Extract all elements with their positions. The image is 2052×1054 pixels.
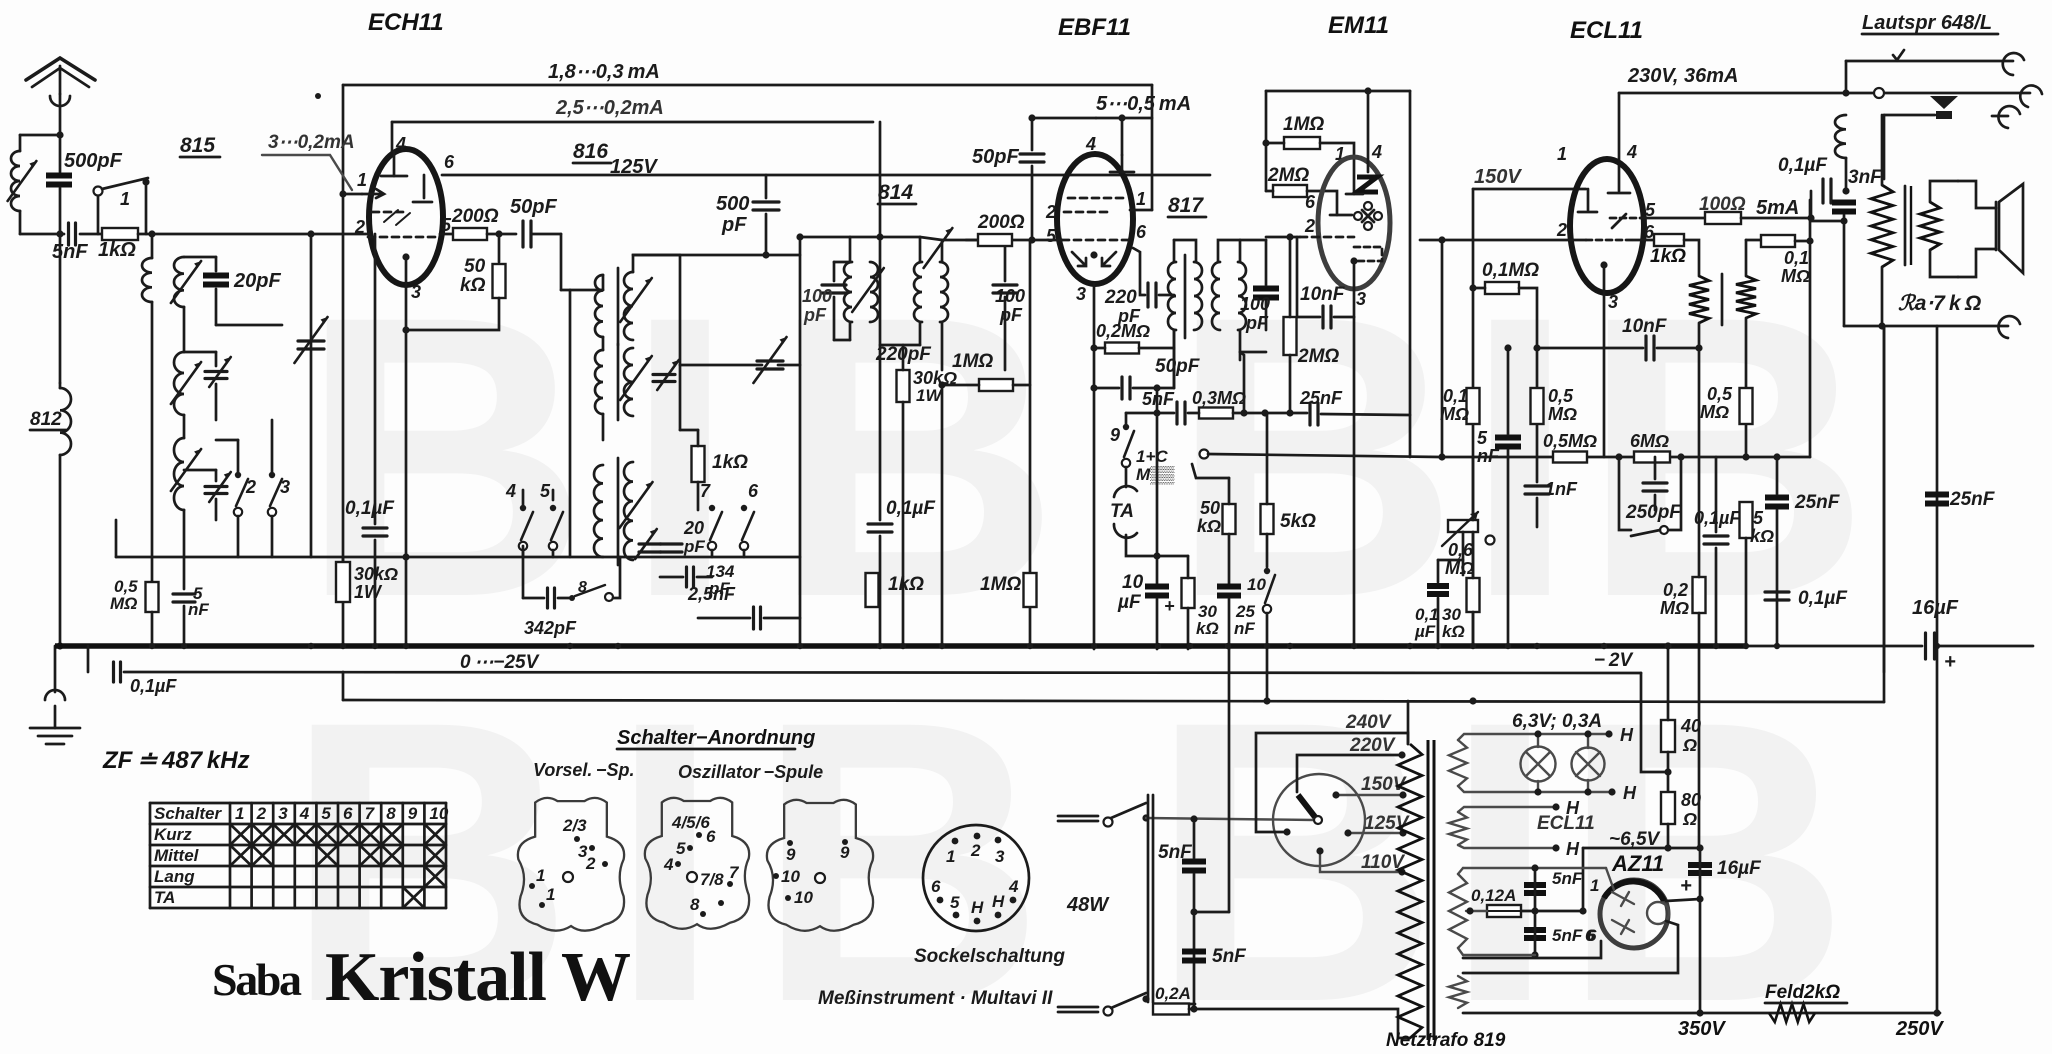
mains sw2 blade <box>1111 993 1146 1008</box>
antenna roof left inner <box>32 68 89 87</box>
detector line y414 d <box>1321 414 1410 415</box>
0,1ECL top <box>1715 457 1718 532</box>
svg-text:6: 6 <box>444 152 455 172</box>
svg-text:500: 500 <box>716 193 749 215</box>
EBF pin4 stem <box>1121 155 1124 172</box>
EBF grids dashed <box>1062 198 1128 240</box>
antenna lower lead <box>59 455 62 646</box>
bus junction <box>615 643 621 649</box>
0,2M top <box>1698 348 1701 577</box>
50pF agc wire b <box>1133 387 1174 390</box>
speaker plug pad <box>1936 111 1952 119</box>
814 plate line <box>800 236 850 239</box>
bus junction <box>149 643 155 649</box>
trimmer cap c <box>205 487 227 494</box>
trimmer osc b arrow <box>657 360 679 390</box>
x1810 down <box>1809 241 1812 457</box>
tap dot 110 <box>1398 868 1405 875</box>
Vorsel center hole <box>563 872 573 882</box>
342 vert left <box>522 546 525 598</box>
100pF R top <box>1004 240 1007 281</box>
selector pin 125 <box>1344 829 1351 836</box>
capacitor 0,1µF 814 <box>868 524 892 532</box>
node 0,1M join <box>1533 344 1540 351</box>
svg-text:kΩ: kΩ <box>460 275 486 296</box>
ground drop <box>54 646 57 692</box>
wire 20pF top <box>215 257 218 271</box>
capacitor 16µF az <box>1688 865 1712 873</box>
wire trim c top <box>215 470 218 481</box>
switch1 right dot <box>142 178 149 185</box>
resistor 0,1MΩ fb <box>1761 235 1795 247</box>
250p cap bot <box>1654 495 1657 510</box>
right edge column <box>1936 646 1939 1013</box>
capacitor 50pF osc <box>523 221 531 247</box>
svg-text:2,5⋯0,2mA: 2,5⋯0,2mA <box>555 97 664 119</box>
svg-text:Lautspr 648/L: Lautspr 648/L <box>1862 12 1992 34</box>
trimmer osc b <box>653 375 675 382</box>
AZ anode2 wire <box>1463 921 1678 973</box>
svg-text:Ω: Ω <box>1682 809 1697 829</box>
bus junction <box>1713 643 1719 649</box>
resistor 2MΩ v <box>1284 317 1297 355</box>
ot core 2 <box>1910 186 1912 265</box>
svg-text:0,1µF: 0,1µF <box>1778 155 1828 176</box>
svg-text:50: 50 <box>464 256 486 277</box>
30k r top <box>1472 532 1475 578</box>
capacitor 342pF <box>548 588 555 608</box>
100pF 817 bot <box>1265 301 1268 330</box>
wire 220V tap <box>1297 755 1402 792</box>
wire x184 b-c <box>183 415 186 438</box>
switch 8 <box>569 585 613 601</box>
svg-text:0,5: 0,5 <box>1548 386 1574 406</box>
fuse 0,2A <box>1153 1004 1189 1015</box>
rail 816 125V <box>442 174 1210 177</box>
svg-text:Lang: Lang <box>154 867 195 886</box>
30k mid bot <box>902 402 905 646</box>
svg-text:10: 10 <box>1247 575 1266 594</box>
speaker bottom line <box>1844 325 2008 328</box>
svg-text:5: 5 <box>676 839 686 858</box>
svg-text:EM11: EM11 <box>1328 12 1389 39</box>
node -6,5V <box>1696 844 1703 851</box>
resistor 80Ω <box>1661 792 1675 824</box>
stub 05M top <box>151 557 154 583</box>
EM cath down <box>1353 317 1356 646</box>
svg-text:10: 10 <box>781 867 800 886</box>
rail 0-25V <box>124 672 1641 673</box>
rail bottom right <box>1463 1012 1940 1015</box>
svg-text:ECL11: ECL11 <box>1537 813 1595 834</box>
svg-text:MΩ: MΩ <box>1440 404 1469 424</box>
ECH cathode line <box>405 257 408 330</box>
switch 7 <box>708 505 722 550</box>
capacitor 5nF ps1 <box>1182 862 1206 871</box>
mains sw1 dot <box>1142 814 1149 821</box>
x1157 column <box>1156 413 1159 585</box>
capacitor 100pF 814L <box>822 285 846 293</box>
pot link <box>1472 457 1475 520</box>
resistor 2MΩ EM <box>1273 185 1307 197</box>
814 link y340 <box>834 339 850 342</box>
svg-text:TA: TA <box>154 888 175 907</box>
svg-text:240V: 240V <box>1345 712 1392 733</box>
EM grid bar <box>1346 193 1363 196</box>
bus junction <box>877 643 883 649</box>
EM grid dashed <box>1300 236 1354 239</box>
svg-text:0,2A: 0,2A <box>1155 984 1191 1003</box>
capacitor 50pF agc <box>1122 377 1130 399</box>
resistor 200Ω EBF <box>978 234 1012 246</box>
AZ pin1 wire <box>1463 867 1606 869</box>
250p box <box>1619 457 1631 530</box>
svg-text:1kΩ: 1kΩ <box>712 452 748 473</box>
potentiometer 0,6MΩ <box>1442 512 1478 546</box>
svg-text:1kΩ: 1kΩ <box>98 239 136 261</box>
cap20 arrow <box>635 529 657 559</box>
tuning cap arrow main <box>294 317 327 363</box>
svg-text:Schalter: Schalter <box>154 804 222 823</box>
lamp2 top stub <box>1587 734 1589 748</box>
TA jack arcs <box>1114 486 1137 538</box>
svg-text:ECL11: ECL11 <box>1570 17 1643 44</box>
node 880 plate <box>876 233 883 240</box>
2M EM right <box>1307 191 1337 215</box>
TA return <box>1126 535 1188 556</box>
svg-text:20pF: 20pF <box>233 270 281 292</box>
ECL triode slash <box>1612 214 1626 228</box>
switch 2 <box>234 472 248 516</box>
0,1trafo lead <box>1438 559 1463 562</box>
bus junction <box>372 643 378 649</box>
0,1trafo bot <box>1437 598 1440 646</box>
coil osc a2 <box>624 272 633 340</box>
mains lead 2 <box>1058 1007 1098 1012</box>
134 wire <box>660 576 683 579</box>
arrow coil <box>171 261 201 303</box>
x680 seg2 <box>679 365 682 430</box>
coil osc c1 <box>594 465 603 557</box>
ECL grid line <box>1420 239 1586 242</box>
250p box b <box>1668 457 1681 530</box>
svg-text:220: 220 <box>1104 287 1137 308</box>
resistor 1MΩ EM <box>1284 137 1320 149</box>
sw7 bottom stub <box>711 550 714 557</box>
fuse 0,12A <box>1487 905 1521 917</box>
50pF low <box>1031 166 1034 240</box>
bus after 16uF <box>1938 645 2033 648</box>
mains sw1 blade <box>1111 803 1146 818</box>
svg-text:5kΩ: 5kΩ <box>1280 511 1316 532</box>
svg-text:50: 50 <box>1200 498 1220 518</box>
resistor 200Ω ECH <box>453 228 487 240</box>
0,1trafo top <box>1437 560 1440 582</box>
817 right top <box>1240 239 1266 242</box>
svg-text:1: 1 <box>1557 144 1567 164</box>
arrow osc c2 <box>619 482 652 528</box>
switch 4 <box>519 505 533 550</box>
svg-text:Vorsel. −Sp.: Vorsel. −Sp. <box>533 760 634 780</box>
resistor 0,2MΩ EBF <box>1105 343 1139 354</box>
selector center <box>1314 816 1322 824</box>
socket pin labels <box>931 841 1019 917</box>
bus junction <box>1774 643 1780 649</box>
svg-text:+: + <box>1944 651 1956 673</box>
wire 20pF link <box>184 256 216 259</box>
resistor 1kΩ osc <box>692 446 705 482</box>
1k ECL right <box>1684 240 1699 276</box>
svg-text:10: 10 <box>794 888 813 907</box>
ground bar3 <box>46 743 64 746</box>
svg-text:1: 1 <box>546 885 555 904</box>
speaker hook 3 <box>1992 106 2020 128</box>
filament drop <box>1582 848 1585 911</box>
EM grid left <box>1266 236 1300 239</box>
node mains2 <box>1190 1005 1197 1012</box>
bus junction <box>1187 643 1193 649</box>
100pF 817 top <box>1265 240 1268 285</box>
spk vert a <box>1845 61 1848 93</box>
x1030 vert <box>1029 240 1032 646</box>
node EM pin4 top <box>1364 87 1371 94</box>
250p sw circ <box>1660 526 1668 534</box>
-2V bend to 40-80 <box>1641 673 1668 772</box>
30k mid top <box>902 345 905 370</box>
speaker hook 2 <box>2020 86 2042 107</box>
resistor 5kΩ <box>1261 504 1274 534</box>
field coil bot <box>1845 158 1848 188</box>
10nF ECL wire <box>1537 347 1643 350</box>
node EBF pin4 <box>1118 114 1125 121</box>
bus junction <box>567 643 573 649</box>
node mains mid <box>1190 908 1197 915</box>
box left vertical x343 <box>342 85 345 646</box>
decorative watermark <box>285 233 1870 1054</box>
wire 20pF across <box>216 324 282 327</box>
svg-text:5mA: 5mA <box>1756 197 1799 219</box>
capacitor 100pF 817 <box>1253 289 1279 298</box>
switch 10 <box>1263 568 1275 613</box>
svg-text:MΩ: MΩ <box>1548 404 1577 424</box>
svg-text:0,1µF: 0,1µF <box>1798 588 1848 609</box>
ot primary bot <box>1881 267 1884 326</box>
814 p bottom <box>849 322 852 340</box>
svg-text:H: H <box>1566 839 1580 859</box>
0,1uF col low <box>374 540 377 646</box>
1M left <box>942 384 979 387</box>
svg-text:4/5/6: 4/5/6 <box>671 813 710 832</box>
svg-text:Mittel: Mittel <box>154 846 200 865</box>
svg-text:8: 8 <box>690 895 700 914</box>
osc right top <box>633 255 680 272</box>
svg-text:Ω: Ω <box>1682 735 1697 755</box>
sw5 link <box>552 490 555 500</box>
svg-text:+: + <box>1164 596 1175 616</box>
814 s top <box>919 237 922 262</box>
svg-text:3nF: 3nF <box>1848 167 1883 188</box>
node det x1244 <box>1240 409 1247 416</box>
node x800 plate <box>796 233 803 240</box>
antenna cup <box>50 96 70 106</box>
svg-text:9: 9 <box>786 845 796 864</box>
ECLh tap <box>1552 803 1559 810</box>
coil 814 p1 <box>844 262 852 322</box>
svg-text:814: 814 <box>878 181 913 204</box>
winding3 box bottom lead <box>1458 948 1463 955</box>
0,2M wire <box>1094 347 1105 350</box>
node grid return bot <box>1438 453 1445 460</box>
lamp1 top dot <box>1534 730 1541 737</box>
node 80 bottom <box>1664 844 1671 851</box>
node y700 x1471 <box>1469 697 1476 704</box>
10nF ECL wire b <box>1657 347 1699 350</box>
svg-text:0,1: 0,1 <box>1784 248 1809 268</box>
plug pad link <box>1884 114 1935 117</box>
osc core b <box>617 344 620 420</box>
wire 50pF right <box>531 233 561 236</box>
output transformer primary <box>1871 185 1893 267</box>
svg-text:4: 4 <box>1085 134 1096 154</box>
bus junction <box>1287 643 1293 649</box>
selector pointer <box>1298 795 1315 817</box>
node antenna junction <box>56 131 63 138</box>
svg-text:5: 5 <box>1477 428 1488 448</box>
node 0,1Mfb <box>1806 237 1813 244</box>
svg-text:50pF: 50pF <box>972 146 1019 168</box>
ECLh tap2 <box>1552 844 1559 851</box>
svg-text:50pF: 50pF <box>510 196 557 218</box>
socket circle <box>923 825 1029 931</box>
svg-text:16µF: 16µF <box>1717 858 1762 879</box>
capacitor 20pF b <box>660 544 682 552</box>
node cathode50k <box>402 326 409 333</box>
svg-text:2: 2 <box>970 841 981 860</box>
0,1M right <box>1519 288 1537 348</box>
x680 to trimmer <box>680 364 762 367</box>
output transformer secondary <box>1920 202 1940 250</box>
817 top link <box>1174 240 1196 262</box>
capacitor 16µF <box>1926 633 1935 659</box>
ECL pin4 drop <box>1618 93 1621 191</box>
bus junction <box>403 643 409 649</box>
coil 817 s2 <box>1238 262 1246 330</box>
capacitor 5nF ECL <box>1495 438 1521 447</box>
node cath 50pF <box>1090 384 1097 391</box>
svg-text:1: 1 <box>946 847 955 866</box>
x603 seg <box>602 275 605 290</box>
resistor 0,5MΩ <box>146 582 159 612</box>
bus junction <box>1435 643 1441 649</box>
capacitor 20pF osc <box>639 544 661 552</box>
svg-text:1W: 1W <box>354 582 383 602</box>
capacitor 25nF spk <box>1925 495 1949 504</box>
814 s2 top link <box>942 240 1005 262</box>
svg-text:220V: 220V <box>1349 735 1396 756</box>
5mA line ext <box>1811 220 1844 223</box>
grid line to x311 <box>152 233 311 236</box>
trimmer right lead <box>778 364 800 367</box>
svg-text:25nF: 25nF <box>1949 489 1996 510</box>
svg-text:2MΩ: 2MΩ <box>1297 346 1339 367</box>
svg-text:815: 815 <box>180 134 215 157</box>
svg-text:TA: TA <box>1110 501 1134 522</box>
svg-text:3: 3 <box>1608 292 1618 312</box>
capacitor 5nF ps2 <box>1182 952 1206 961</box>
ECL cathode <box>1600 261 1607 268</box>
svg-text:817: 817 <box>1168 194 1204 217</box>
svg-text:1MΩ: 1MΩ <box>952 351 993 372</box>
svg-text:500pF: 500pF <box>64 150 123 172</box>
1M EM left <box>1266 142 1284 145</box>
capacitor 0,1µF ECL <box>1704 536 1728 544</box>
svg-text:0,5MΩ: 0,5MΩ <box>1543 431 1597 451</box>
resistor 30kΩ det <box>1182 578 1195 608</box>
ECL pin1 bar <box>1578 211 1597 214</box>
svg-text:150V: 150V <box>1474 166 1522 188</box>
resistor 0,5MΩ b <box>1740 388 1753 424</box>
bus junction <box>1601 643 1607 649</box>
capacitor 50pF EBF <box>1020 154 1044 162</box>
svg-text:pF: pF <box>803 305 827 325</box>
svg-text:9: 9 <box>1110 425 1120 445</box>
winding a bot <box>1698 323 1701 348</box>
node 2Mv <box>1286 233 1293 240</box>
svg-text:3⋯0,2mA: 3⋯0,2mA <box>268 132 355 153</box>
resistor 0,1MΩ ECL <box>1485 282 1519 294</box>
svg-text:1: 1 <box>357 170 367 190</box>
capacitor 25nF det <box>1217 587 1241 596</box>
814 s link <box>920 237 942 240</box>
svg-text:2MΩ: 2MΩ <box>1267 165 1309 186</box>
bus junction <box>1155 643 1161 649</box>
check mark <box>1893 50 1904 60</box>
svg-text:3: 3 <box>1356 289 1366 309</box>
mains wire 2 <box>1189 1009 1410 1038</box>
wire 125V tap <box>1348 832 1403 834</box>
x1810 vert <box>1809 200 1812 241</box>
fuse right wire <box>1521 910 1583 913</box>
150V wire <box>1473 188 1586 191</box>
svg-text:3: 3 <box>995 847 1005 866</box>
coil 817 p1 <box>1168 262 1176 330</box>
817 s top <box>1239 240 1242 262</box>
rail 2,5mA <box>392 121 873 124</box>
svg-text:3: 3 <box>411 282 421 302</box>
winding3 box bottom <box>1463 954 1535 956</box>
AZ pin1 into tube <box>1606 868 1614 890</box>
ECH grids dashed <box>368 212 436 237</box>
node 0,1 spk <box>1842 187 1849 194</box>
winding b bot <box>1745 318 1748 457</box>
speaker line1 <box>1846 60 2013 63</box>
coil 815 sec a <box>174 257 184 307</box>
814 s bot lnk <box>919 322 922 345</box>
wire trim c bot <box>215 499 218 520</box>
mains switch link <box>1148 795 1153 1002</box>
svg-text:Kristall W: Kristall W <box>325 939 631 1016</box>
2M v top <box>1289 237 1292 317</box>
Osz1 pin dots <box>675 832 733 917</box>
node 25ECL <box>1773 453 1780 460</box>
capacitor 220pF EBF <box>1148 283 1156 307</box>
wire sw3 top <box>271 420 274 475</box>
node 5mA join <box>1807 214 1814 221</box>
bus junction <box>308 643 314 649</box>
antenna stem lower <box>59 188 62 383</box>
817 p top <box>1173 240 1176 262</box>
5nF ps1 top <box>1193 819 1196 858</box>
